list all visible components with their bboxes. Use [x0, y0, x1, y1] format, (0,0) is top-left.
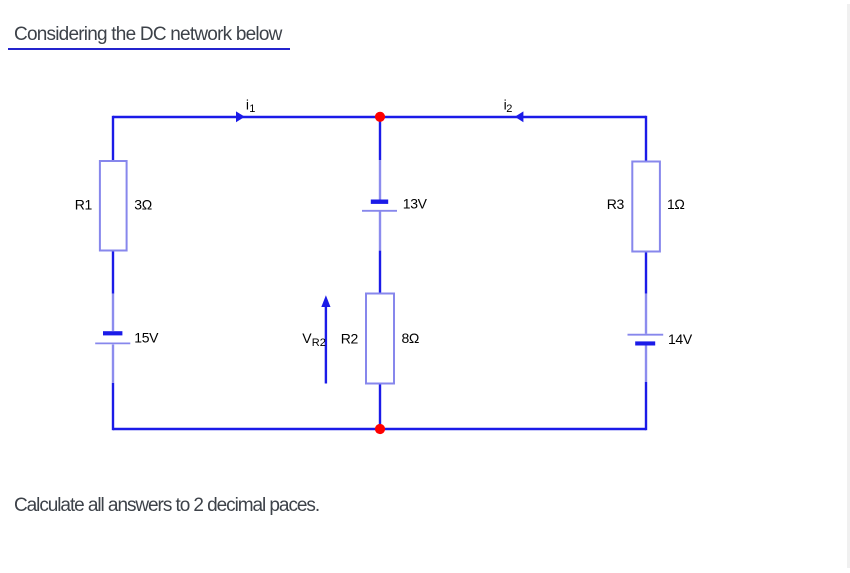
svg-text:R2: R2: [341, 331, 359, 347]
svg-text:14V: 14V: [668, 331, 693, 347]
svg-text:2: 2: [506, 103, 512, 115]
svg-text:R1: R1: [75, 196, 93, 212]
svg-text:15V: 15V: [134, 330, 159, 346]
svg-text:R2: R2: [312, 337, 326, 349]
svg-text:V: V: [302, 330, 312, 346]
svg-text:3Ω: 3Ω: [134, 196, 152, 212]
svg-text:8Ω: 8Ω: [402, 330, 420, 346]
svg-text:13V: 13V: [403, 196, 428, 212]
svg-text:R3: R3: [607, 196, 625, 212]
svg-text:1Ω: 1Ω: [667, 196, 685, 212]
svg-text:1: 1: [249, 103, 255, 115]
